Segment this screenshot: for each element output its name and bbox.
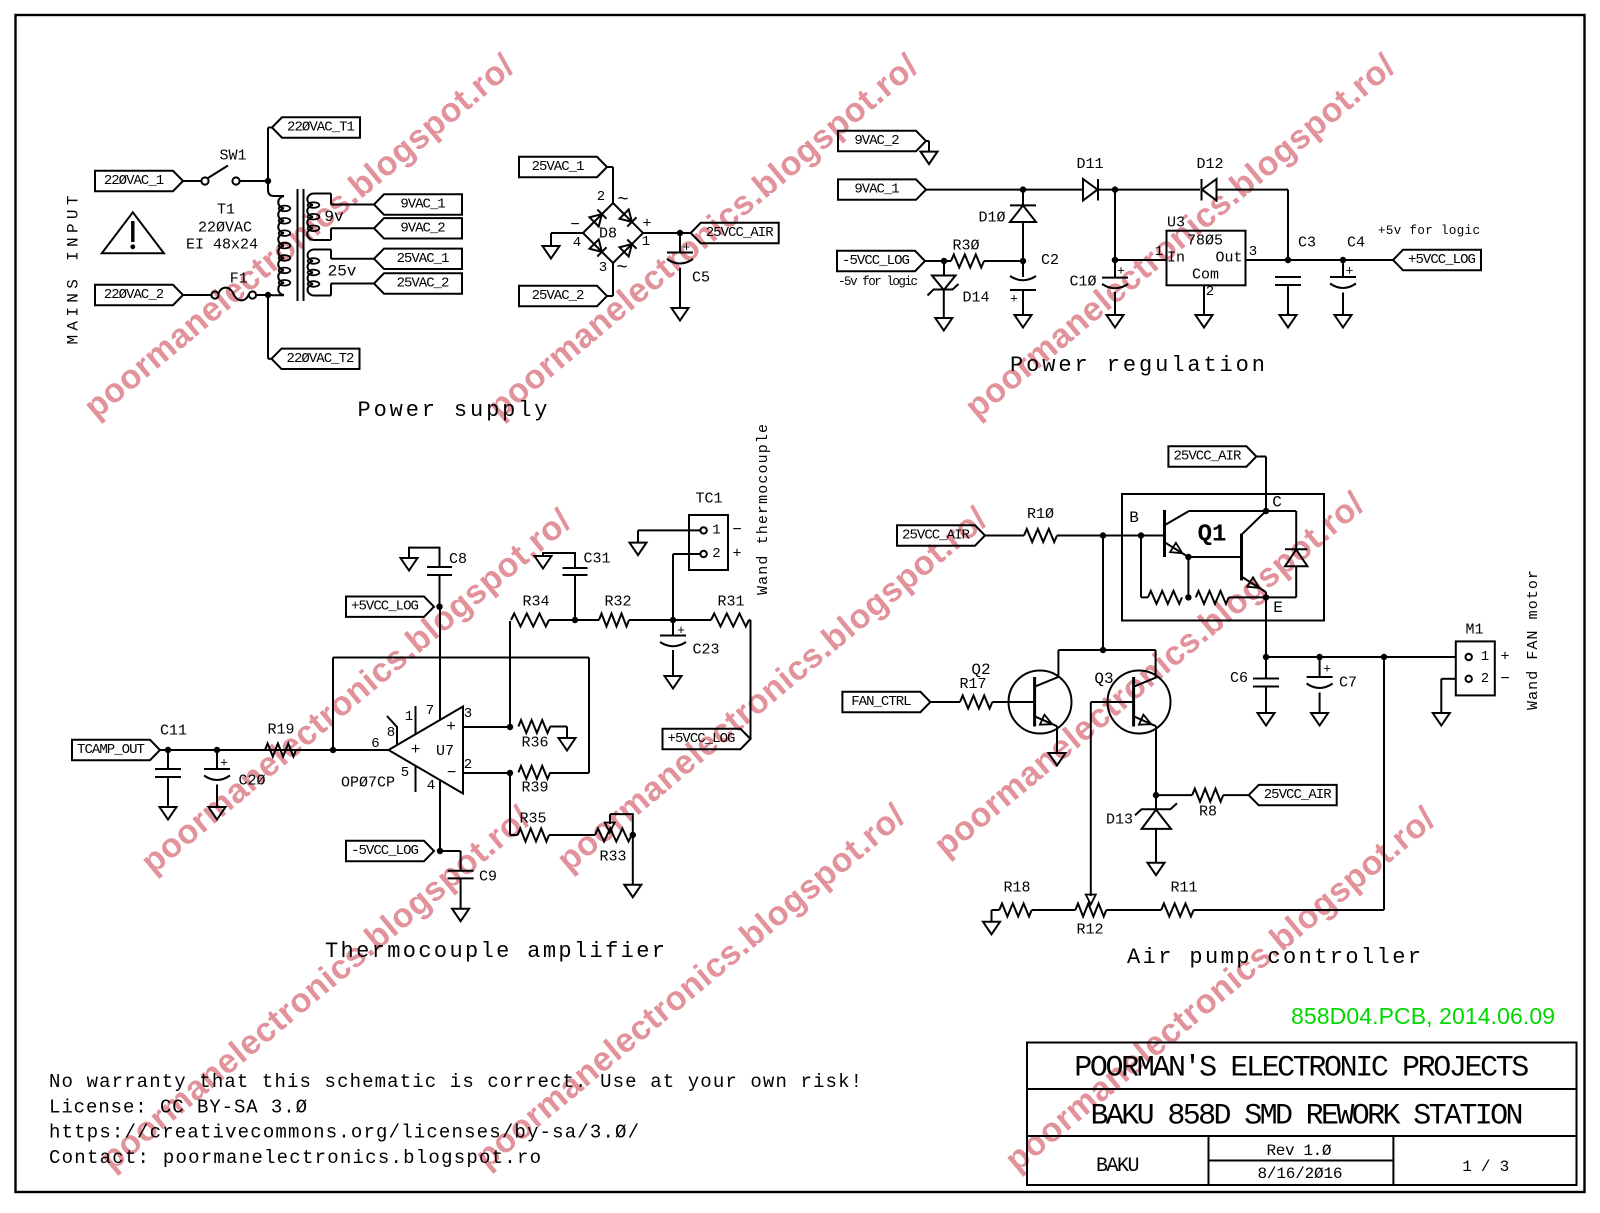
svg-text:1: 1	[1155, 244, 1163, 260]
svg-text:3: 3	[1249, 244, 1257, 260]
svg-text:U3: U3	[1167, 215, 1185, 232]
svg-text:In: In	[1167, 250, 1185, 267]
svg-text:7: 7	[426, 703, 434, 719]
svg-text:−: −	[447, 764, 457, 782]
svg-text:5: 5	[401, 765, 409, 781]
svg-text:+5VCC_LOG: +5VCC_LOG	[1408, 252, 1476, 268]
svg-text:C3: C3	[1298, 235, 1316, 252]
svg-text:C: C	[1272, 494, 1282, 512]
svg-text:+: +	[1346, 264, 1354, 279]
svg-text:OPØ7CP: OPØ7CP	[341, 775, 395, 792]
svg-text:22ØVAC_1: 22ØVAC_1	[104, 173, 164, 189]
svg-text:25VAC_2: 25VAC_2	[532, 288, 585, 304]
svg-text:Rev 1.Ø: Rev 1.Ø	[1267, 1142, 1332, 1160]
svg-text:9v: 9v	[324, 208, 344, 226]
svg-text:25VCC_AIR: 25VCC_AIR	[902, 528, 970, 544]
svg-text:R39: R39	[521, 780, 548, 797]
svg-text:9VAC_2: 9VAC_2	[400, 220, 445, 236]
svg-text:4: 4	[573, 235, 581, 251]
svg-text:D8: D8	[599, 226, 617, 243]
svg-text:~: ~	[616, 257, 627, 279]
svg-text:Air pump controller: Air pump controller	[1127, 945, 1421, 970]
svg-text:License: CC BY-SA 3.Ø: License: CC BY-SA 3.Ø	[49, 1096, 307, 1118]
svg-text:-5VCC_LOG: -5VCC_LOG	[351, 843, 419, 859]
svg-text:FAN_CTRL: FAN_CTRL	[851, 694, 911, 710]
svg-text:9VAC_1: 9VAC_1	[400, 197, 445, 213]
svg-text:R19: R19	[267, 722, 294, 739]
svg-text:BAKU 858D SMD REWORK STATION: BAKU 858D SMD REWORK STATION	[1091, 1100, 1524, 1134]
svg-text:78Ø5: 78Ø5	[1187, 233, 1223, 250]
svg-text:T1: T1	[217, 202, 235, 219]
svg-text:+5VCC_LOG: +5VCC_LOG	[668, 731, 736, 747]
svg-text:R34: R34	[522, 594, 549, 611]
svg-text:+: +	[683, 240, 691, 255]
svg-text:2: 2	[597, 189, 605, 205]
svg-text:Com: Com	[1192, 267, 1219, 284]
svg-text:R35: R35	[519, 811, 546, 828]
svg-text:C4: C4	[1347, 235, 1365, 252]
svg-text:https://creativecommons.org/li: https://creativecommons.org/licenses/by-…	[49, 1122, 639, 1144]
svg-text:+: +	[677, 623, 685, 638]
svg-text:C1Ø: C1Ø	[1069, 274, 1096, 291]
svg-text:C31: C31	[583, 551, 610, 568]
svg-text:+5v for logic: +5v for logic	[1378, 224, 1480, 238]
svg-text:858D04.PCB, 2014.06.09: 858D04.PCB, 2014.06.09	[1291, 1003, 1555, 1029]
svg-text:9VAC_2: 9VAC_2	[854, 133, 899, 149]
svg-text:EI 48x24: EI 48x24	[186, 237, 258, 254]
svg-text:4: 4	[427, 778, 435, 794]
svg-text:1 / 3: 1 / 3	[1462, 1158, 1509, 1176]
svg-text:TCAMP_OUT: TCAMP_OUT	[77, 742, 145, 758]
svg-text:R31: R31	[717, 594, 744, 611]
svg-text:Q2: Q2	[971, 661, 990, 679]
svg-text:1: 1	[712, 522, 720, 538]
svg-text:M1: M1	[1465, 622, 1483, 639]
svg-text:R3Ø: R3Ø	[952, 238, 979, 255]
svg-text:−: −	[732, 521, 742, 539]
svg-text:C5: C5	[692, 270, 710, 287]
svg-text:8/16/2Ø16: 8/16/2Ø16	[1258, 1165, 1343, 1183]
svg-text:25VAC_1: 25VAC_1	[532, 159, 585, 175]
svg-text:+: +	[732, 546, 741, 563]
svg-text:SW1: SW1	[219, 148, 246, 165]
svg-text:D13: D13	[1106, 812, 1133, 829]
svg-text:3: 3	[464, 706, 472, 722]
svg-text:Out: Out	[1215, 250, 1242, 267]
svg-text:-5v for logic: -5v for logic	[838, 275, 918, 289]
svg-text:22ØVAC_2: 22ØVAC_2	[104, 287, 164, 303]
svg-text:25VAC_1: 25VAC_1	[397, 251, 450, 267]
svg-text:E: E	[1273, 599, 1283, 617]
svg-text:25VAC_2: 25VAC_2	[397, 276, 450, 292]
svg-text:POORMAN'S ELECTRONIC PROJECTS: POORMAN'S ELECTRONIC PROJECTS	[1074, 1052, 1529, 1086]
svg-text:U7: U7	[436, 743, 454, 760]
svg-text:D12: D12	[1196, 156, 1223, 173]
svg-text:C2Ø: C2Ø	[238, 773, 265, 790]
svg-text:25VCC_AIR: 25VCC_AIR	[706, 225, 774, 241]
svg-text:C23: C23	[692, 642, 719, 659]
svg-text:+: +	[446, 718, 456, 736]
svg-text:25VCC_AIR: 25VCC_AIR	[1264, 787, 1332, 803]
svg-text:−: −	[1500, 670, 1510, 688]
svg-text:3: 3	[599, 260, 607, 276]
svg-text:R32: R32	[604, 594, 631, 611]
svg-text:−: −	[570, 216, 580, 234]
svg-text:C2: C2	[1041, 252, 1059, 269]
svg-text:MAINS INPUT: MAINS INPUT	[65, 196, 83, 345]
svg-text:D11: D11	[1076, 156, 1103, 173]
svg-text:22ØVAC_T2: 22ØVAC_T2	[287, 351, 355, 367]
svg-text:R8: R8	[1199, 804, 1217, 821]
svg-text:D1Ø: D1Ø	[978, 210, 1005, 227]
svg-text:R12: R12	[1076, 922, 1103, 939]
svg-text:22ØVAC_T1: 22ØVAC_T1	[287, 120, 355, 136]
svg-text:+: +	[1010, 292, 1018, 307]
svg-text:Wand thermocouple: Wand thermocouple	[755, 424, 772, 595]
svg-text:Q1: Q1	[1198, 522, 1227, 549]
svg-text:25VCC_AIR: 25VCC_AIR	[1173, 449, 1241, 465]
svg-text:C6: C6	[1230, 670, 1248, 687]
svg-text:+: +	[1500, 649, 1509, 666]
svg-text:+: +	[220, 756, 228, 771]
svg-text:B: B	[1129, 509, 1139, 527]
svg-text:TC1: TC1	[695, 491, 722, 508]
svg-text:2: 2	[1481, 671, 1489, 687]
svg-text:Wand FAN motor: Wand FAN motor	[1525, 570, 1542, 710]
svg-text:1: 1	[642, 234, 650, 250]
svg-text:+: +	[411, 741, 421, 759]
svg-text:R33: R33	[599, 849, 626, 866]
svg-text:8: 8	[387, 725, 395, 741]
svg-text:C9: C9	[479, 869, 497, 886]
svg-text:+: +	[1323, 662, 1331, 677]
svg-text:R1Ø: R1Ø	[1027, 506, 1054, 523]
svg-text:9VAC_1: 9VAC_1	[854, 182, 899, 198]
svg-text:R36: R36	[521, 735, 548, 752]
svg-text:R11: R11	[1170, 880, 1197, 897]
svg-text:~: ~	[617, 189, 628, 211]
svg-text:6: 6	[371, 736, 379, 752]
svg-text:No warranty that this schemati: No warranty that this schematic is corre…	[49, 1071, 862, 1093]
svg-text:+5VCC_LOG: +5VCC_LOG	[351, 599, 419, 615]
svg-text:22ØVAC: 22ØVAC	[198, 220, 252, 237]
svg-text:F1: F1	[230, 271, 248, 288]
svg-text:C7: C7	[1339, 675, 1357, 692]
svg-text:C8: C8	[449, 551, 467, 568]
svg-text:2: 2	[464, 757, 472, 773]
svg-text:1: 1	[1481, 649, 1489, 665]
svg-text:C11: C11	[160, 723, 187, 740]
svg-text:BAKU: BAKU	[1096, 1155, 1140, 1178]
svg-text:Q3: Q3	[1094, 670, 1113, 688]
svg-text:25v: 25v	[328, 263, 357, 281]
svg-text:1: 1	[405, 709, 413, 725]
svg-text:D14: D14	[962, 290, 989, 307]
svg-text:2: 2	[712, 546, 720, 562]
svg-text:2: 2	[1206, 284, 1214, 300]
svg-text:+: +	[1117, 264, 1125, 279]
svg-text:-5VCC_LOG: -5VCC_LOG	[842, 253, 910, 269]
svg-text:R18: R18	[1003, 880, 1030, 897]
svg-text:+: +	[642, 216, 651, 233]
svg-text:Contact: poormanelectronics.bl: Contact: poormanelectronics.blogspot.ro	[49, 1147, 541, 1169]
